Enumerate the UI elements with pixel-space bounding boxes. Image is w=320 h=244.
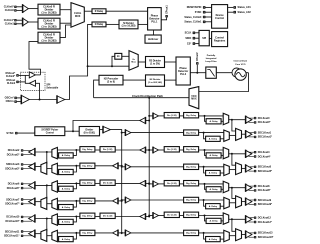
Control Registers block — [212, 32, 228, 47]
wire sysref to digital delay SDCLKout13 — [131, 232, 184, 234]
wire device clock drop to mux SDCLKout11 — [46, 219, 48, 232]
wire CLKin MUX to R Delay — [84, 10, 92, 12]
output buffer SDCLKout13 — [246, 231, 252, 238]
svg-text:Dig. Delay: Dig. Delay — [82, 182, 93, 184]
wire bus buffer to divider DCLKout6 — [115, 182, 140, 184]
pin SDCLKout5* — [254, 170, 256, 172]
wire SYSREF bus tap SDCLKout9 — [121, 199, 123, 201]
SDCLKout11 analog delay — [59, 237, 74, 242]
svg-text:Selectable: Selectable — [46, 87, 58, 90]
wire OSCin to PLL blocks — [65, 66, 88, 99]
DCLKout0 digital delay — [184, 113, 199, 118]
buffer DCLKout0 tap — [153, 113, 159, 119]
wire CLKin0 buffer to R divider — [28, 8, 38, 10]
svg-text:Status_LD1: Status_LD1 — [238, 6, 252, 9]
pin SDCLKout9* — [254, 203, 256, 205]
wire mux to R2 divider — [138, 61, 145, 63]
pin DCLKout10 — [21, 216, 23, 218]
wire digital delay to mux SDCLKout5 — [199, 166, 224, 168]
wire R Delay to PLL1 phase detector — [106, 10, 148, 12]
wire PLL1 to Holdover — [153, 30, 155, 35]
PLL2 reference mux — [129, 51, 138, 71]
output buffer DCLKout6 — [29, 182, 35, 189]
node SYSREF distribution bus — [110, 130, 121, 235]
DCLKout4 analog delay — [206, 153, 221, 158]
svg-text:A. Delay: A. Delay — [209, 220, 218, 223]
N2 Divider — [146, 75, 165, 86]
svg-text:SDCLKout9*: SDCLKout9* — [258, 203, 272, 206]
pin CPout2 — [196, 62, 199, 65]
output mux SDCLKout9 — [236, 196, 242, 208]
output buffer SDCLKout11 — [29, 230, 35, 237]
svg-text:Dig. Delay: Dig. Delay — [186, 132, 197, 134]
wire digital delay to mux SDCLKout7 — [57, 200, 80, 202]
pin DCLKout8 — [254, 185, 256, 187]
svg-text:DCLKout8: DCLKout8 — [258, 185, 270, 188]
wire analog delay to mux SDCLKout13 — [220, 238, 224, 240]
wire bus buffer to divider DCLKout10 — [115, 216, 140, 218]
wire analog delay to mux SDCLKout9 — [220, 205, 224, 207]
op PLL1 phase detector — [148, 8, 162, 30]
wire delay mux to output mux SDCLKout5 — [229, 169, 235, 171]
wire SYSREF bus tap SDCLKout5 — [121, 166, 123, 168]
wire VCO to VCO mux — [199, 73, 249, 92]
DCLKout0 divider — [164, 113, 179, 118]
wire digital delay to mux SDCLKout3 — [57, 165, 80, 167]
wire sysref to digital delay SDCLKout9 — [131, 199, 184, 201]
wire delay mux to output mux SDCLKout11 — [47, 235, 52, 237]
wire mux to output buffer SDCLKout7 — [35, 201, 41, 203]
wire CLKin0 R divider to CLKin MUX — [60, 9, 71, 11]
N2 Prescaler — [99, 75, 123, 85]
VCO MUX — [189, 87, 199, 109]
output buffer SDCLKout5 — [246, 165, 252, 172]
svg-text:DCLKout2: DCLKout2 — [8, 149, 20, 152]
wire Device Control to Status_LD1 — [228, 6, 234, 8]
wire Device Control to Status_LD2 — [228, 11, 234, 13]
svg-text:CLKin2*: CLKin2* — [6, 75, 15, 78]
wire OSCin reference to doubler and mux — [88, 65, 129, 67]
svg-text:A. Delay: A. Delay — [62, 238, 71, 241]
wire digital delay to mux SDCLKout9 — [199, 199, 224, 201]
svg-text:Dig. Delay: Dig. Delay — [186, 215, 197, 217]
mux DCLKout8 — [223, 181, 229, 192]
DCLKout2 analog delay — [59, 153, 74, 158]
pin SDCLKout1 — [254, 131, 256, 133]
pin DCLKout2* — [21, 154, 23, 156]
node main clock distribution bus — [148, 98, 150, 217]
svg-text:Status_LD2: Status_LD2 — [238, 11, 252, 14]
wire device clock drop to mux SDCLKout13 — [232, 219, 236, 231]
svg-text:Div (1-32): Div (1-32) — [103, 182, 113, 184]
wire to doubler — [112, 56, 115, 66]
DCLKout6 analog delay — [59, 186, 74, 191]
svg-text:A. Delay: A. Delay — [62, 171, 71, 174]
svg-text:Div (1-32): Div (1-32) — [167, 149, 177, 151]
svg-text:Dig. Delay: Dig. Delay — [82, 149, 93, 151]
wire divider to digital delay DCLKout2 — [95, 149, 100, 151]
buffer OSCout output driver — [29, 80, 35, 86]
output buffer DCLKout10 — [29, 215, 35, 222]
pin SDCLKout1* — [254, 136, 256, 138]
svg-text:SDCLKout7*: SDCLKout7* — [5, 203, 19, 206]
svg-text:CLKin2: CLKin2 — [7, 82, 16, 85]
svg-text:(8 to 8191): (8 to 8191) — [84, 131, 96, 134]
svg-text:Dig. Delay: Dig. Delay — [82, 216, 93, 218]
svg-text:(2 to 8): (2 to 8) — [107, 80, 115, 83]
mux SDCLKout9 delay select — [224, 197, 230, 208]
svg-text:A. Delay: A. Delay — [209, 120, 218, 123]
svg-text:DCLKout10*: DCLKout10* — [5, 220, 19, 223]
wire sysref to digital delay SDCLKout1 — [131, 132, 184, 134]
pin DCLKout2 — [21, 149, 23, 151]
wire RESET/GPIO to Device Control — [206, 6, 212, 8]
wire device clock drop to mux SDCLKout9 — [232, 188, 236, 199]
DCLKout6 divider — [100, 180, 115, 185]
svg-text:CPout2: CPout2 — [196, 52, 199, 61]
SDCLKout1 analog delay — [206, 136, 221, 141]
wire analog delay to mux DCLKout4 — [221, 154, 223, 156]
svg-text:Div (1-32): Div (1-32) — [103, 149, 113, 151]
wire bus buffer to divider DCLKout2 — [115, 149, 140, 151]
mux SDCLKout3 delay select — [52, 163, 58, 174]
svg-text:DCLKout6*: DCLKout6* — [7, 187, 20, 190]
svg-text:Dig. Delay: Dig. Delay — [186, 233, 197, 235]
wire device clock drop to mux SDCLKout3 — [46, 152, 48, 164]
wire SYSREF divider to buffer — [100, 129, 104, 131]
wire digital delay to mux DCLKout2 — [57, 149, 80, 151]
svg-text:Dig. Delay: Dig. Delay — [186, 183, 197, 185]
output buffer DCLKout2 — [29, 149, 35, 156]
svg-text:SDCLKout9: SDCLKout9 — [258, 199, 272, 202]
input buffer CLKin0 — [23, 5, 29, 13]
pin SDCLKout3* — [21, 168, 23, 170]
wire digital delay to mux SDCLKout1 — [199, 132, 224, 134]
wire SYSREF bus tap SDCLKout3 — [121, 165, 123, 167]
mux DCLKout10 — [52, 214, 58, 225]
wire analog delay to mux DCLKout2 — [57, 154, 58, 156]
wire CLKin1 buffer to R divider — [28, 21, 38, 23]
pin DCLKout0 — [254, 117, 256, 119]
wire CLKin2 R divider to CLKin MUX — [60, 25, 71, 37]
SDCLKout7 analog delay — [59, 205, 74, 210]
SYSREF Divider — [79, 127, 99, 136]
wire distribution tap to SYSREF divider — [73, 121, 140, 132]
svg-text:Loop Filter: Loop Filter — [205, 60, 216, 63]
mux SDCLKout13 delay select — [224, 230, 230, 241]
wire mux to output buffer SDCLKout13 — [242, 234, 246, 236]
buffer SYSREF tap SDCLKout1 — [125, 130, 130, 136]
svg-text:Divider: Divider — [85, 130, 93, 132]
svg-text:A. Delay: A. Delay — [209, 138, 218, 141]
wire mux to output buffer DCLKout0 — [229, 119, 246, 121]
wire loop filter to VCO — [216, 72, 248, 74]
wire analog delay to mux DCLKout0 — [221, 120, 223, 122]
pin DCLKout4 — [254, 151, 256, 153]
DCLKout2 divider — [100, 147, 115, 152]
svg-text:A. Delay: A. Delay — [209, 154, 218, 157]
output buffer DCLKout12 — [246, 216, 252, 223]
dashed box SPI selectable OSCout buffers — [20, 72, 45, 90]
pin DCLKout6* — [21, 187, 23, 189]
svg-text:SDCLKout11: SDCLKout11 — [5, 230, 20, 233]
loop filter — [206, 67, 217, 78]
pin SDCLKout11* — [21, 235, 23, 237]
buffer DCLKout12 tap — [153, 213, 159, 219]
Device Control block — [212, 5, 228, 29]
wire to analog delay DCLKout6 — [73, 183, 76, 188]
mux DCLKout12 — [223, 213, 229, 224]
svg-text:SDCLKout1*: SDCLKout1* — [258, 136, 272, 139]
wire delay mux to output mux SDCLKout1 — [229, 134, 235, 136]
svg-text:MUX: MUX — [75, 15, 81, 18]
wire sysref to digital delay SDCLKout5 — [131, 166, 184, 168]
wire divider to digital delay DCLKout8 — [179, 183, 183, 185]
wire main bus tap to DCLKout12 divider — [148, 215, 150, 217]
svg-text:DCLKout0*: DCLKout0* — [258, 121, 271, 124]
pin DCLKout10* — [21, 220, 23, 222]
pin DCLKout12* — [254, 221, 256, 223]
svg-text:A. Delay: A. Delay — [62, 221, 71, 224]
wire mux to output buffer DCLKout8 — [229, 187, 246, 189]
DCLKout2 digital delay — [80, 147, 95, 152]
CLKin MUX — [71, 3, 84, 28]
wire divider to digital delay DCLKout12 — [179, 215, 183, 217]
svg-text:A. Delay: A. Delay — [209, 205, 218, 208]
wire SYNC to Device Control — [206, 11, 212, 13]
pin SDCLKout5 — [254, 166, 256, 168]
wire main bus tap to DCLKout10 divider — [148, 216, 150, 218]
SDCLKout13 analog delay — [206, 237, 221, 242]
wire OSCout driver input from OSCin — [36, 83, 40, 99]
mux DCLKout2 — [52, 147, 58, 158]
pin DCLKout8* — [254, 189, 256, 191]
wire SYSREF bus tap SDCLKout7 — [121, 200, 123, 202]
svg-text:SDCLKout3*: SDCLKout3* — [5, 168, 19, 171]
svg-text:SDCLKout11*: SDCLKout11* — [4, 235, 19, 238]
wire N divider to PLL1 phase detector — [138, 23, 148, 25]
buffer SYSREF tap SDCLKout9 — [125, 197, 130, 203]
svg-text:SDCLKout1: SDCLKout1 — [258, 131, 272, 134]
wire PLL1 to CPout1 — [161, 18, 166, 20]
SDCLKout1 digital delay — [184, 130, 199, 135]
DCLKout12 divider — [164, 212, 179, 217]
input buffer CLKin1 — [23, 18, 29, 26]
pin SDCLKout11 — [21, 230, 23, 232]
output mux SDCLKout1 — [236, 128, 242, 140]
svg-text:CS*: CS* — [187, 42, 191, 45]
wire SYSREF bus tap SDCLKout11 — [121, 232, 123, 234]
output buffer DCLKout0 — [246, 116, 252, 123]
svg-text:PLL2: PLL2 — [180, 73, 187, 76]
svg-text:SYNC: SYNC — [6, 131, 13, 135]
wire analog delay to mux SDCLKout5 — [220, 172, 224, 174]
svg-text:Dig. Delay: Dig. Delay — [186, 115, 197, 117]
wire mux to output buffer SDCLKout5 — [242, 167, 246, 169]
wire to analog delay SDCLKout3 — [73, 166, 76, 172]
svg-text:Status_CLKin0: Status_CLKin0 — [184, 16, 202, 19]
DCLKout4 digital delay — [184, 147, 199, 152]
pin SDCLKout9 — [254, 199, 256, 201]
wire analog delay to mux DCLKout10 — [57, 221, 58, 223]
svg-text:Clock Distribution Path: Clock Distribution Path — [132, 94, 163, 98]
svg-text:Dig. Delay: Dig. Delay — [186, 149, 197, 151]
PLL1 N Divider — [119, 20, 138, 29]
wire digital delay to mux DCLKout12 — [199, 215, 224, 217]
pin Status_LD2 — [233, 11, 236, 14]
pin Status_LD1 — [233, 6, 236, 9]
wire to analog delay SDCLKout7 — [73, 201, 76, 207]
wire analog delay to mux SDCLKout3 — [57, 171, 58, 173]
svg-text:CLKin0: CLKin0 — [5, 8, 15, 12]
SDCLKout5 analog delay — [206, 170, 221, 175]
output mux SDCLKout7 — [41, 197, 47, 209]
wire delay mux to output mux SDCLKout13 — [229, 235, 235, 237]
wire SYSREF control to divider — [65, 130, 79, 132]
svg-text:(1 to 2N): (1 to 2N) — [150, 62, 160, 65]
svg-text:SYSREF Pulser: SYSREF Pulser — [41, 130, 58, 132]
buffer SYSREF tap SDCLKout7 — [113, 198, 119, 204]
pin DCLKout6 — [21, 183, 23, 185]
svg-text:DCLKout8*: DCLKout8* — [258, 189, 271, 192]
svg-text:SDCLKout5: SDCLKout5 — [258, 166, 272, 169]
svg-text:Internal Dual: Internal Dual — [234, 60, 248, 63]
wire feedback to N2 prescaler — [94, 80, 99, 98]
SDCLKout13 digital delay — [184, 230, 199, 235]
svg-text:Core VCO: Core VCO — [235, 64, 246, 66]
svg-text:RESET/GPIO: RESET/GPIO — [187, 6, 202, 9]
svg-text:MUX: MUX — [191, 98, 197, 101]
svg-text:Div (1-32): Div (1-32) — [167, 215, 177, 217]
svg-text:DCLKout4: DCLKout4 — [258, 151, 270, 154]
svg-text:SDIO: SDIO — [185, 37, 191, 40]
DCLKout10 divider — [100, 213, 115, 218]
mux SDCLKout11 delay select — [52, 230, 58, 241]
wire CLKin0 pins to buffer — [17, 6, 23, 8]
svg-text:Dig. Delay: Dig. Delay — [82, 201, 93, 203]
svg-text:Div (1-32): Div (1-32) — [103, 216, 113, 218]
svg-text:Div (1-32): Div (1-32) — [167, 115, 177, 117]
SPI block — [199, 30, 209, 45]
pin SDCLKout3 — [21, 163, 23, 165]
pin DCLKout0* — [254, 121, 256, 123]
svg-text:SDCLKout13*: SDCLKout13* — [258, 236, 274, 239]
svg-text:DCLKout4*: DCLKout4* — [258, 155, 271, 158]
mux DCLKout4 — [223, 147, 229, 158]
wire SYNC to SYSREF control — [18, 131, 35, 133]
wire CS* to SPI — [195, 43, 199, 45]
svg-text:Control: Control — [46, 131, 55, 134]
svg-text:(1 to 16,383): (1 to 16,383) — [42, 39, 57, 43]
pin DCLKout12 — [254, 217, 256, 219]
svg-text:OSCin*: OSCin* — [5, 96, 14, 100]
wire main bus tap to DCLKout4 divider — [148, 149, 150, 151]
output buffer SDCLKout3 — [29, 163, 35, 170]
R2 Divider — [146, 57, 165, 68]
wire mux to output buffer SDCLKout11 — [35, 233, 41, 235]
svg-text:SPI: SPI — [202, 37, 206, 40]
svg-text:Div (1-32): Div (1-32) — [167, 183, 177, 185]
svg-text:PLL1: PLL1 — [151, 21, 158, 24]
buffer DCLKout4 tap — [153, 147, 159, 153]
wire PLL2 PD to loop filter — [190, 72, 206, 74]
wire device clock drop to mux SDCLKout1 — [232, 120, 236, 131]
wire R2 divider to PLL2 phase detector — [165, 61, 177, 63]
CLKin0 R Divider — [38, 4, 60, 15]
DCLKout12 digital delay — [184, 212, 199, 217]
wire mux to output buffer SDCLKout1 — [242, 133, 246, 135]
SDCLKout5 digital delay — [184, 164, 199, 169]
buffer DCLKout10 tap — [140, 214, 146, 220]
R Delay — [92, 9, 106, 14]
wire device clock drop to mux SDCLKout5 — [232, 154, 236, 165]
svg-text:SDCLKout13: SDCLKout13 — [258, 232, 273, 235]
wire digital delay to mux DCLKout8 — [199, 183, 224, 185]
pin SDCLKout7* — [21, 203, 23, 205]
wire mux to output buffer DCLKout6 — [35, 184, 52, 186]
buffer DCLKout6 tap — [140, 181, 146, 187]
SDCLKout3 digital delay — [80, 163, 95, 168]
svg-text:A. Delay: A. Delay — [62, 188, 71, 191]
DCLKout0 analog delay — [206, 119, 221, 124]
DCLKout6 digital delay — [80, 180, 95, 185]
output mux SDCLKout11 — [41, 229, 47, 241]
output mux SDCLKout3 — [41, 162, 47, 174]
wire analog delay to mux DCLKout12 — [221, 220, 223, 222]
wire digital delay to mux DCLKout4 — [199, 149, 224, 151]
svg-text:Dig. Delay: Dig. Delay — [186, 167, 197, 169]
buffer OSCin — [21, 95, 29, 103]
wire Status_CLKin0 to Device Control — [206, 16, 212, 18]
mux SDCLKout1 delay select — [224, 130, 230, 141]
wire analog delay to mux SDCLKout11 — [57, 238, 58, 240]
buffer SYSREF tap SDCLKout3 — [113, 163, 119, 169]
DCLKout8 analog delay — [206, 187, 221, 192]
SDCLKout9 analog delay — [206, 204, 221, 209]
svg-text:(1 to 262,143): (1 to 262,143) — [148, 81, 162, 84]
wire sysref to digital delay SDCLKout3 — [95, 165, 113, 167]
svg-text:A. Delay: A. Delay — [209, 188, 218, 191]
svg-text:CLKin0*: CLKin0* — [4, 5, 14, 9]
svg-text:Holdover: Holdover — [148, 38, 158, 41]
wire to analog delay DCLKout2 — [73, 150, 76, 155]
op PLL2 phase detector — [176, 57, 190, 85]
wire mux to output buffer DCLKout12 — [229, 218, 246, 220]
wire CLKin2 input from OSCout/CLKin2 path — [29, 42, 41, 75]
SDCLKout9 digital delay — [184, 197, 199, 202]
buffer OSCout input to CLKin2 — [29, 72, 35, 78]
svg-text:DCLKout12: DCLKout12 — [258, 217, 272, 220]
wire SCLK to SPI — [195, 32, 199, 34]
wire main bus tap to DCLKout2 divider — [148, 149, 150, 151]
pin SDCLKout13 — [254, 232, 256, 234]
wire mux to output buffer DCLKout4 — [229, 153, 246, 155]
wire divider to digital delay DCLKout4 — [179, 149, 183, 151]
wire delay mux to output mux SDCLKout7 — [47, 203, 52, 205]
svg-text:CLKin1: CLKin1 — [5, 22, 15, 26]
DCLKout8 digital delay — [184, 181, 199, 186]
svg-text:Dig. Delay: Dig. Delay — [82, 166, 93, 168]
wire sysref to digital delay SDCLKout7 — [95, 200, 113, 202]
wire OSCin to N Delay — [88, 24, 92, 66]
svg-text:(1 to 16,383): (1 to 16,383) — [122, 25, 136, 28]
wire to analog delay SDCLKout5 — [204, 167, 206, 173]
wire OSCout pins to buffers — [19, 74, 30, 76]
pin SDCLKout13* — [254, 236, 256, 238]
wire to analog delay SDCLKout9 — [204, 200, 206, 206]
wire device clock drop to mux SDCLKout7 — [46, 185, 48, 199]
wire to analog delay DCLKout0 — [205, 116, 207, 121]
